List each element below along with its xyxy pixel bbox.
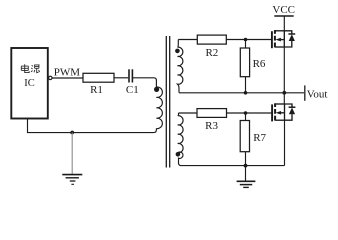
svg-text:IC: IC [24,78,35,89]
wire C1 to primary [133,78,156,87]
svg-text:R6: R6 [253,58,266,70]
transformer core [165,36,167,168]
svg-text:R3: R3 [205,120,218,132]
node R6 bottom [244,91,248,95]
N1 phase dot [175,49,180,54]
resistor R3 [197,109,227,118]
PWM output terminal [49,76,52,79]
resistor R2 [197,35,226,44]
wire R2 to gate Q1 [226,39,271,41]
svg-text:Vout: Vout [307,89,328,101]
resistor R6 [240,48,249,77]
wire to R3 [179,112,198,114]
gate plate [271,31,273,48]
N2 phase dot [176,152,181,157]
power IC box U1 [11,48,48,119]
wire R1 to C1 [114,77,128,79]
svg-text:R1: R1 [90,84,103,96]
ground symbol right [237,166,256,188]
source stub [275,119,284,121]
channel dashes [274,30,276,47]
source stub [275,46,284,48]
body diode D2 [285,104,293,107]
secondary winding N2 (bottom) [178,113,183,166]
transistor Q1 (top MOSFET) [272,30,295,48]
wire to R7 [245,113,247,121]
node R2/R6 junction [244,38,248,42]
body diode D1 [284,31,292,34]
secondary winding N1 (top) [178,40,183,93]
node source Q1 / drain Q2 [282,91,286,95]
svg-text:C1: C1 [126,84,139,96]
source-drain bus [283,31,285,47]
source-drain bus [284,104,286,120]
svg-text:R2: R2 [205,47,218,59]
wire Vout rail [179,92,304,94]
wire VCC to drain Q1 [283,16,285,31]
gate plate [271,104,273,121]
wire source Q1 to Vout rail [283,47,285,93]
svg-text:R7: R7 [253,132,266,144]
body arrow [281,39,285,41]
transistor Q2 (bottom MOSFET) [272,103,295,121]
wire IC to ground rail [28,119,157,133]
label 电源 (power) [21,64,39,72]
wire R7 bottom [245,152,247,166]
ground symbol left [62,133,82,185]
primary winding [156,87,162,129]
drain stub [275,30,284,32]
drain stub [275,103,284,105]
wire to R2 [178,39,197,41]
svg-text:PWM: PWM [54,67,81,79]
channel dashes [274,103,276,120]
primary winding phase dot [154,87,159,92]
resistor R1 [83,73,114,82]
wire PWM node [52,77,83,79]
svg-text:VCC: VCC [272,4,295,16]
VCC rail bar [274,15,293,17]
wire source Q2 to ground rail [284,120,286,165]
wire R6 bottom [245,77,247,93]
node ground junction [70,131,74,135]
node R7 bottom / ground [244,164,248,168]
wire drain Q2 from Vout rail [283,93,285,104]
capacitor C1 [129,69,132,82]
wire R3 to gate Q2 [227,112,273,114]
resistor R7 [240,121,249,152]
wire ground rail (bottom) [181,165,285,167]
wire to R6 [245,40,247,49]
Vout terminal tick [304,85,306,100]
node R3/R7 junction [244,111,248,115]
body arrow [281,112,285,114]
